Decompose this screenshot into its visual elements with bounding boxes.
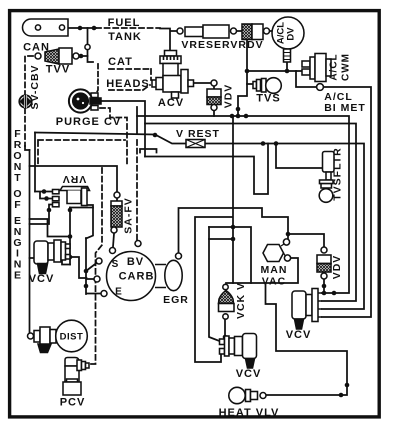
wire PURGE mid out bbox=[101, 101, 145, 157]
EGR valve bbox=[155, 253, 182, 291]
svg-text:F: F bbox=[14, 199, 21, 211]
wire HEADS dashed bbox=[109, 85, 150, 90]
wire VDV mid stubs bbox=[213, 86, 215, 116]
wire heat valve feed bbox=[266, 283, 348, 395]
VRESER reservoir bbox=[177, 25, 237, 38]
junction node (246,116) bbox=[244, 114, 249, 119]
wire VRDV to A/CL DV bbox=[270, 30, 273, 32]
junction node (238,109) bbox=[236, 107, 241, 112]
VRV valve (inverted) bbox=[53, 187, 90, 207]
svg-text:VDV: VDV bbox=[331, 255, 343, 280]
junction node (70,210) bbox=[68, 208, 73, 213]
svg-text:V REST: V REST bbox=[176, 128, 220, 140]
wire stub above mid horizontal bbox=[140, 149, 157, 153]
PURGE CV valve bbox=[69, 89, 101, 112]
wire carb left bus bbox=[86, 238, 101, 294]
junction node (46.5,198.5) bbox=[44, 196, 49, 201]
VCV left valve bbox=[34, 240, 70, 274]
junction node (225,337) bbox=[223, 335, 228, 340]
junction node (155,135) bbox=[153, 133, 158, 138]
junction node (347,385) bbox=[345, 383, 350, 388]
PCV valve bbox=[63, 358, 89, 396]
svg-text:FUEL: FUEL bbox=[108, 17, 141, 29]
wire VRESER to VRDV bbox=[237, 30, 241, 32]
wire h283 MAN VAC box bbox=[226, 258, 298, 283]
junction node (341,395) bbox=[339, 393, 344, 398]
wire ACV to VDV mid bbox=[193, 82, 211, 84]
wire L1 bbox=[137, 116, 349, 293]
junction node (324,293) bbox=[322, 291, 327, 296]
svg-text:TVV: TVV bbox=[46, 64, 70, 76]
svg-text:BI MET: BI MET bbox=[324, 102, 366, 114]
svg-text:VRV: VRV bbox=[62, 173, 86, 185]
VDV right valve bbox=[317, 247, 331, 279]
wire A/CL CWM to BI MET port bbox=[296, 71, 317, 87]
wire TVSFLTR feed bbox=[276, 144, 323, 169]
junction node (288,234) bbox=[286, 232, 291, 237]
wire purge top dashed bbox=[97, 64, 99, 93]
svg-text:CAT: CAT bbox=[108, 56, 133, 68]
junction node (233,239) bbox=[231, 237, 236, 242]
wire h227 v251 bbox=[209, 227, 251, 283]
svg-text:CWM: CWM bbox=[341, 53, 352, 81]
svg-text:SV-CBV: SV-CBV bbox=[29, 64, 41, 109]
A/CL CWM motor bbox=[302, 54, 331, 82]
wire fuel tank dashed bbox=[96, 27, 160, 29]
wire left vertical to VRV nipple 1 bbox=[34, 133, 36, 192]
wire VRESER feed down to ACV bbox=[160, 29, 176, 52]
svg-text:TVSFLTR: TVSFLTR bbox=[332, 147, 344, 200]
svg-text:TVS: TVS bbox=[256, 93, 280, 105]
wire VCV left right-side vertical bbox=[69, 208, 71, 265]
svg-text:VRDV: VRDV bbox=[230, 39, 263, 51]
svg-text:MAN: MAN bbox=[261, 264, 288, 276]
svg-text:VCV: VCV bbox=[29, 273, 55, 285]
junction node (49,210) bbox=[47, 208, 52, 213]
VCV right valve bbox=[292, 289, 322, 330]
wire VCV left top bbox=[30, 219, 71, 237]
wire VCK V bottom bbox=[224, 319, 226, 337]
VRDV valve bbox=[242, 24, 270, 40]
junction node (276,143.5) bbox=[274, 141, 279, 146]
TVS switch bbox=[253, 78, 281, 94]
wire VRV nipple 2 bbox=[30, 205, 53, 225]
svg-text:VAC: VAC bbox=[262, 276, 286, 288]
label FRONT OF ENGINE bbox=[13, 128, 21, 282]
wire VDV right bottom bbox=[323, 279, 325, 293]
svg-text:DV: DV bbox=[286, 27, 297, 41]
svg-text:SA-FV: SA-FV bbox=[123, 197, 135, 234]
wire A-line to MAN VAC top bbox=[70, 207, 93, 209]
wire TVV right port to drop bbox=[79, 55, 88, 57]
canister (vapor separator) bbox=[23, 19, 69, 36]
wire V REST line bbox=[136, 107, 138, 134]
svg-text:TANK: TANK bbox=[108, 31, 142, 43]
A/CL DV diaphragm bbox=[272, 17, 304, 62]
DIST distributor bbox=[28, 320, 88, 352]
svg-text:E: E bbox=[14, 270, 21, 282]
wire V REST long line bbox=[35, 133, 364, 310]
VCK V check valve bbox=[219, 284, 235, 319]
junction node (238,116) bbox=[236, 114, 241, 119]
wire SA-FV bottom to carb S bbox=[113, 234, 114, 248]
V REST restrictor bbox=[186, 140, 205, 148]
wire junction drop from fuel line bbox=[88, 28, 94, 62]
svg-text:ACV: ACV bbox=[158, 97, 184, 109]
svg-text:CAN: CAN bbox=[23, 42, 50, 54]
BV CARB bbox=[94, 241, 156, 301]
ACV air control valve bbox=[152, 51, 194, 99]
svg-text:PCV: PCV bbox=[60, 397, 86, 409]
wire TVV dash to main bbox=[25, 146, 30, 150]
junction node (324,286) bbox=[322, 284, 327, 289]
wire A/CL DV stub down bbox=[286, 62, 288, 71]
junction node (44,191.5) bbox=[42, 189, 47, 194]
svg-text:VCV: VCV bbox=[286, 329, 312, 341]
svg-text:VRESER: VRESER bbox=[181, 39, 230, 51]
wire TVS nipple bbox=[247, 83, 253, 85]
wire MAN VAC to VDV right bbox=[288, 234, 324, 247]
wire choke dashed bbox=[136, 140, 138, 240]
junction node (287,71) bbox=[285, 69, 290, 74]
svg-text:VCV: VCV bbox=[236, 368, 262, 380]
wire VRV right down bbox=[86, 205, 93, 239]
wire VRDV down to TVS/L1 bbox=[238, 40, 247, 116]
VCV bottom-middle valve bbox=[220, 334, 257, 369]
svg-text:VCK V: VCK V bbox=[235, 282, 247, 319]
svg-text:EGR: EGR bbox=[163, 294, 189, 306]
A/CL BI MET sensor port bbox=[317, 84, 324, 91]
junction node (334,293) bbox=[332, 291, 337, 296]
svg-text:VDV: VDV bbox=[223, 84, 235, 109]
wire BI MET long right-side drop bbox=[322, 87, 371, 317]
wire purge bottom dashed bbox=[100, 108, 127, 165]
wire SA-FV feed bbox=[30, 166, 118, 201]
svg-text:T: T bbox=[14, 172, 21, 184]
SA-FV valve bbox=[111, 192, 122, 233]
wire v233 branch bbox=[195, 116, 233, 362]
junction node (233,227) bbox=[231, 225, 236, 230]
svg-text:DIST: DIST bbox=[60, 332, 84, 343]
junction node (86,271) bbox=[84, 269, 89, 274]
inline connector on fuel drop bbox=[85, 44, 90, 49]
wire mid horizontal to v254 bbox=[145, 144, 268, 195]
svg-text:BV: BV bbox=[127, 256, 144, 268]
svg-text:HEADS: HEADS bbox=[106, 78, 150, 90]
wire v209 to VCV nipple bbox=[209, 227, 222, 342]
wire VRV nipple 1 bbox=[35, 192, 53, 199]
svg-text:CARB: CARB bbox=[119, 271, 155, 283]
junction node (70,257) bbox=[68, 255, 73, 260]
junction node (232,116) bbox=[230, 114, 235, 119]
junction node (80,28) bbox=[78, 26, 83, 31]
junction node (94,28) bbox=[92, 26, 97, 31]
MAN VAC hexagon bbox=[263, 239, 291, 262]
HEAT VLV bbox=[229, 387, 266, 403]
junction node (247,71) bbox=[245, 69, 250, 74]
svg-text:PURGE CV: PURGE CV bbox=[56, 116, 121, 128]
junction node (81,56) bbox=[79, 54, 84, 59]
wire main left vertical bbox=[29, 150, 31, 333]
wire TVV dashed down bbox=[25, 56, 33, 146]
VDV mid valve bbox=[207, 80, 221, 111]
TVV valve bbox=[35, 48, 79, 64]
wire L2 bbox=[145, 124, 356, 302]
wire PCV dashed bbox=[89, 168, 102, 364]
svg-text:HEAT VLV: HEAT VLV bbox=[219, 407, 280, 419]
wire VCV left bottom loop bbox=[30, 257, 87, 278]
svg-text:E: E bbox=[115, 287, 123, 298]
SV-CBV valve bbox=[19, 95, 31, 109]
svg-text:S: S bbox=[112, 259, 120, 270]
wire EGR up to A-line bbox=[179, 208, 289, 253]
junction node (263,143.5) bbox=[261, 141, 266, 146]
junction node (70,236.5) bbox=[68, 234, 73, 239]
wire canister to fuel tank line bbox=[66, 27, 96, 29]
TVSFLTR filter bbox=[319, 152, 334, 203]
wire CAT dashed bbox=[109, 69, 151, 80]
wire y71 to A/CL CWM bbox=[247, 70, 301, 72]
svg-text:A/CL: A/CL bbox=[329, 53, 340, 80]
junction node (86,286) bbox=[84, 284, 89, 289]
wire dashed branch y140 bbox=[38, 140, 125, 165]
